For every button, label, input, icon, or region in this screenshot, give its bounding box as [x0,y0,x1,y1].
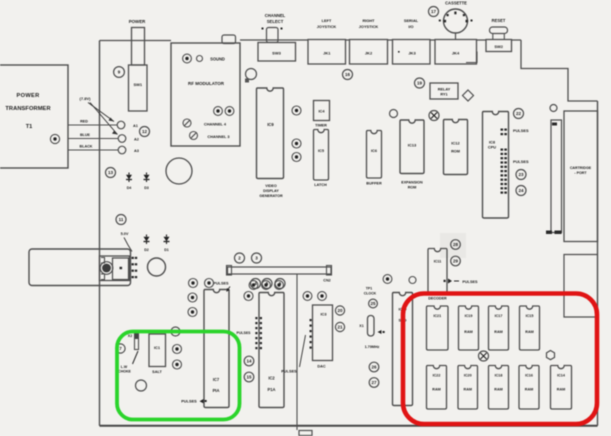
CPU data pins [501,129,507,194]
IC15 RAM top row [520,306,540,350]
svg-text:25: 25 [370,301,376,306]
svg-text:BLACK: BLACK [80,145,93,149]
diode D4 [126,173,132,191]
IC12 ROM [444,120,468,175]
svg-text:SW1: SW1 [133,82,142,87]
green highlight box [117,332,240,420]
svg-text:TIMER: TIMER [315,124,327,128]
callout 9 [173,360,182,369]
svg-text:ROM: ROM [408,186,417,190]
switch SW2 body [486,40,512,52]
svg-text:T1: T1 [26,124,33,130]
switch SW3 body [258,43,296,62]
wire BLUE lead [68,138,118,140]
connector JK4 CASSETTE [435,40,477,65]
crystal X1 [368,316,375,337]
svg-text:15: 15 [246,375,252,380]
node A3 [118,146,126,154]
svg-text:IC21: IC21 [433,314,441,318]
node A1 [117,121,125,129]
svg-text:CLOCK: CLOCK [364,292,377,296]
callout 19 [415,78,425,88]
callout 12 [140,127,150,137]
svg-text:JOYSTICK: JOYSTICK [359,24,379,29]
svg-text:SOUND: SOUND [210,57,225,62]
svg-text:RAM: RAM [525,388,533,392]
svg-text:IC2: IC2 [268,376,275,381]
regulator pins [132,257,138,278]
wire pointer to blue lead [90,103,118,135]
svg-text:IC14: IC14 [557,374,566,378]
IC10 sound [393,293,413,406]
svg-text:SERIAL: SERIAL [404,18,419,23]
screw between RAM rows [479,351,489,361]
pad near IC9 corner [245,79,249,83]
callout 2 above CN2 [235,253,245,263]
trimmer pair in RF modulator [214,107,223,116]
svg-text:SALT: SALT [152,370,162,374]
relay RY1 [430,83,458,99]
svg-text:EXPANSION: EXPANSION [401,181,423,185]
wire board outline bottom edge [100,425,598,427]
svg-text:11: 11 [119,217,124,222]
svg-text:17: 17 [431,9,437,14]
svg-text:RAM: RAM [464,330,472,334]
svg-text:IC7: IC7 [213,377,220,382]
svg-text:VIDEO: VIDEO [265,184,277,188]
svg-text:CPU: CPU [488,145,496,150]
screws above IC2 [249,281,258,290]
wire board outline left edge [99,41,101,426]
callout 22 [514,109,524,119]
hole on green edge [171,327,180,336]
trimmer CHANNEL 4 [183,119,191,127]
svg-text:19: 19 [417,81,423,86]
diode D1 [164,235,170,253]
callout 7 in green box [116,344,125,353]
svg-text:POWER: POWER [17,93,40,99]
callout 24 [516,186,526,196]
regulator mounting hole [100,262,113,275]
cartridge port outer [564,111,598,242]
svg-text:DAC: DAC [317,365,325,369]
wire BLACK lead [68,149,118,151]
svg-text:CHOKE: CHOKE [118,370,131,374]
screw between IC7 and IC2 [244,292,253,301]
svg-text:PULSES: PULSES [181,399,197,404]
callout 17 [429,7,439,17]
svg-text:BLUE: BLUE [80,133,91,137]
svg-text:IC3: IC3 [320,312,327,317]
callout 23 [516,170,526,180]
svg-text:IC17: IC17 [495,314,503,318]
callout 13 [106,168,116,178]
svg-text:BUFFER: BUFFER [366,182,382,186]
RF output connector [222,35,236,44]
IC9 video display generator [257,88,284,179]
capacitor C1 [148,258,166,276]
svg-text:P1A: P1A [268,387,276,392]
callout 8 [173,345,182,354]
IC17 RAM top row [489,306,509,350]
svg-text:IC1: IC1 [154,345,161,350]
svg-text:RAM: RAM [494,388,502,392]
screw column right of IC9 [292,106,301,115]
svg-text:PULSES: PULSES [462,280,478,284]
svg-text:TP1: TP1 [366,287,372,291]
svg-text:JK3: JK3 [408,51,416,56]
svg-text:RELAY: RELAY [438,88,451,92]
svg-text:TRANSFORMER: TRANSFORMER [5,106,50,112]
wire arrow to X1 [378,330,382,334]
svg-text:IC9: IC9 [267,122,274,127]
IC6 buffer [367,131,382,179]
wire lever X2 [133,351,139,364]
svg-text:CHANNEL 3: CHANNEL 3 [207,134,230,139]
screw left of IC7 top a [189,279,198,288]
connector tab bottom edge [299,431,312,436]
svg-text:RAM: RAM [557,388,565,392]
svg-text:- PORT: - PORT [574,171,587,175]
svg-text:DISPLAY: DISPLAY [263,189,279,193]
svg-text:23: 23 [518,172,524,177]
callout 15 [244,372,254,382]
hole above cartridge port [550,105,557,112]
label PULSES at IC11 [444,280,446,282]
svg-text:21: 21 [337,325,343,330]
svg-text:RAM: RAM [464,388,472,392]
mounting hole [166,158,192,184]
svg-text:X2: X2 [128,334,132,338]
wire RED lead [68,124,117,126]
svg-text:SW3: SW3 [272,51,281,56]
transformer T1 [0,65,68,168]
svg-text:DECODER: DECODER [428,297,447,301]
callout 11 with 5.0V [116,215,126,225]
mounting hole near SW3 [246,69,257,80]
svg-text:CHANNEL 4: CHANNEL 4 [204,122,227,127]
IC3 DAC [313,305,333,361]
svg-text:SW2: SW2 [494,44,503,49]
svg-text:IC4: IC4 [318,109,325,114]
svg-text:28: 28 [453,242,459,247]
svg-text:26: 26 [371,365,377,370]
svg-text:CHANNEL: CHANNEL [265,13,286,18]
wire stub at JK4 [466,52,477,63]
regulator Q1 body [100,256,130,281]
callout 29 [451,256,461,266]
svg-text:POWER: POWER [129,19,146,24]
IC22 RAM bottom row [427,366,447,410]
screw near TP1 [383,275,392,284]
svg-text:GENERATOR: GENERATOR [259,194,283,198]
IC16 RAM bottom row [519,366,539,410]
svg-text:SELECT: SELECT [267,19,284,24]
IC20 RAM bottom row [458,366,478,410]
svg-text:ROM: ROM [451,150,460,154]
svg-text:IC12: IC12 [451,141,460,146]
svg-text:JK2: JK2 [365,51,373,56]
svg-text:IC5: IC5 [318,148,325,153]
wire pointer 5.0V [124,238,132,252]
svg-text:24: 24 [518,188,524,193]
svg-text:PULSES: PULSES [281,369,297,374]
svg-text:PULSES: PULSES [513,159,529,164]
svg-text:RIGHT: RIGHT [362,18,375,23]
svg-text:1.79MHz: 1.79MHz [365,345,380,349]
svg-text:D3: D3 [144,186,149,190]
screw above IC3 b [318,292,327,301]
callout 26 [369,362,379,372]
hole above IC10 [409,277,416,284]
svg-text:CASSETTE: CASSETTE [445,1,467,6]
callout 28 [451,240,461,250]
svg-text:IC16: IC16 [525,374,533,378]
svg-text:CARTRIDGE: CARTRIDGE [570,166,592,170]
IC2 PIA [259,293,284,408]
svg-text:IC13: IC13 [408,143,417,148]
wire board outline right edge [597,101,599,426]
IC18 RAM bottom row [489,366,509,410]
svg-text:PULSES: PULSES [513,128,529,133]
callout 21 right of IC3 [335,322,344,331]
screw with cross near IC12 [429,111,439,121]
mounting pad diamond [463,90,474,101]
RF modulator box [171,43,240,146]
svg-text:D1: D1 [164,248,169,252]
callout 20 right of IC3 [335,306,344,315]
callout 1 [114,67,125,78]
svg-text:IC15: IC15 [526,314,534,318]
svg-text:JK1: JK1 [323,51,331,56]
svg-text:L.W: L.W [121,365,128,369]
switch SW1 body [129,65,148,111]
wire board outline top edge left [100,40,172,42]
svg-text:CN2: CN2 [323,279,330,283]
IC4 timer [314,101,330,121]
svg-text:22: 22 [516,111,522,116]
scan artifact patch [440,233,466,258]
connector berg left of IC2 [255,317,262,349]
regulator tab [113,258,129,280]
svg-text:A3: A3 [134,149,139,153]
IC1 SALT [149,334,166,367]
svg-text:5.0V: 5.0V [121,232,129,236]
IC13 expansion ROM [400,120,424,174]
svg-text:X1: X1 [359,324,363,328]
hole between RAM rows [547,351,555,360]
screw above IC3 a [303,292,312,301]
IC11 decoder [428,249,447,293]
svg-text:IC22: IC22 [433,374,441,378]
svg-text:RAM: RAM [432,388,440,392]
wire pointer to IC3 pins [300,335,306,367]
svg-text:29: 29 [453,259,459,264]
svg-text:RAM: RAM [525,330,533,334]
IC19 RAM top row [459,306,479,350]
svg-text:(7.8V): (7.8V) [80,96,92,101]
svg-text:PIA: PIA [213,388,220,393]
svg-text:IC6: IC6 [371,148,378,153]
wire board outline top edge middle [240,39,521,41]
svg-text:RED: RED [80,120,88,124]
wire trace from CN2 to bottom [296,274,298,430]
connector CN2 [228,267,332,274]
connector pins left of IC3 [310,319,312,349]
svg-text:JOYSTICK: JOYSTICK [317,24,337,29]
callout 27 [369,378,379,388]
svg-text:LEFT: LEFT [322,18,332,23]
callout 14 [244,356,254,366]
svg-text:12: 12 [142,129,148,134]
svg-text:RESET: RESET [492,18,506,23]
svg-text:IC18: IC18 [495,374,503,378]
screw column left of IC7 a [188,293,197,302]
IC5 latch [314,130,329,181]
svg-text:D2: D2 [144,248,149,252]
svg-text:IC19: IC19 [465,314,473,318]
IC8 CPU [483,112,509,219]
diode D2 [144,235,150,253]
screw terminal on T1 [50,134,59,143]
svg-text:D4: D4 [127,186,132,190]
wire board edge cartridge notch [564,255,598,318]
wire board outline top-right step [521,40,598,101]
connector power plug [29,249,131,286]
red highlight box [403,294,597,425]
hole near IC13 [390,110,398,118]
svg-text:14: 14 [246,359,252,364]
diode D3 [144,173,150,191]
svg-text:PULSES: PULSES [236,331,251,335]
callout 3 above CN2 [252,253,262,263]
screw left of IC7 top b [205,279,214,288]
trimmer CHANNEL 3 [190,132,198,140]
svg-text:20: 20 [337,308,343,313]
callout 6 below CN2 [275,279,285,289]
node A2 [118,135,126,143]
IC14 RAM bottom row [551,366,572,410]
IC7 PIA [204,290,229,408]
hole in green box [136,380,147,391]
svg-text:JK4: JK4 [452,51,460,56]
IC21 RAM top row [427,306,449,350]
svg-text:16: 16 [345,72,351,77]
svg-text:IC20: IC20 [464,374,472,378]
callout 5 below CN2 [262,279,272,289]
svg-text:RF MODULATOR: RF MODULATOR [188,81,225,86]
svg-text:A1: A1 [133,124,138,128]
svg-text:A2: A2 [134,138,139,142]
trimmer SOUND [183,54,192,63]
callout 16 [343,70,353,80]
svg-text:LATCH: LATCH [314,183,327,187]
svg-text:RAM: RAM [494,330,502,334]
svg-text:IC11: IC11 [434,260,442,264]
svg-text:PULSES: PULSES [213,282,229,286]
cartridge connector inner [551,120,562,233]
callout 4 below CN2 [251,279,261,289]
svg-text:27: 27 [371,380,377,385]
callout 25 [369,299,378,308]
screw column left of IC7 b [188,308,197,317]
svg-text:I/O: I/O [408,24,413,29]
svg-text:RY1: RY1 [440,93,447,97]
svg-text:13: 13 [108,170,114,175]
wire pointer to red lead [88,103,114,122]
